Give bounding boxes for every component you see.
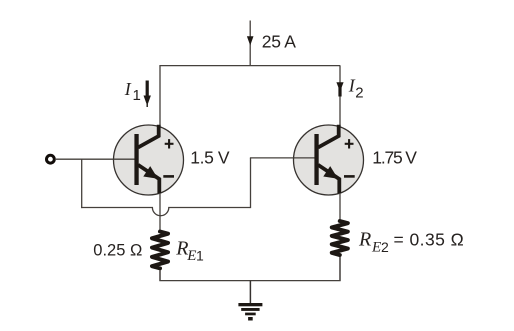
wire: Q1 emitter to RE1 [159, 193, 161, 230]
current arrow I2 [336, 82, 343, 96]
wire: ground stub [249, 281, 251, 304]
polarity mark - of Q2 [344, 175, 355, 178]
svg-text:1: 1 [133, 87, 141, 104]
svg-text:= 0.35 Ω: = 0.35 Ω [394, 230, 465, 250]
label 1.5 V [190, 147, 230, 167]
current arrow 25 A [247, 36, 254, 45]
transistor Q1 [114, 125, 184, 195]
polarity mark - of Q1 [163, 175, 174, 178]
svg-text:1: 1 [196, 248, 204, 264]
wire: top rail [159, 65, 340, 67]
wire: Q2 collector lead [339, 66, 341, 130]
svg-text:2: 2 [381, 239, 389, 255]
label 25 A [262, 32, 296, 52]
wire: base bus with hop over emitter [81, 208, 250, 216]
label 1.75 V [372, 147, 417, 167]
ground [238, 303, 262, 321]
wire: Q2 emitter to RE2 [339, 193, 341, 220]
wire: RE1 to bottom rail [159, 270, 161, 281]
wire: RE2 to bottom rail [339, 257, 341, 281]
wire: junction drop at input node [81, 159, 83, 208]
current arrow I1 [144, 81, 151, 108]
svg-text:1.75 V: 1.75 V [372, 147, 417, 167]
label 0.25 Ω [93, 242, 142, 260]
label RE2 = 0.35 Ω [358, 229, 464, 256]
wire: input to Q1 base [56, 158, 137, 160]
transistor Q2 [294, 125, 364, 195]
svg-text:0.25 Ω: 0.25 Ω [93, 242, 142, 260]
polarity mark + of Q1 [165, 139, 174, 148]
resistor RE1 [152, 232, 168, 269]
svg-text:I: I [124, 79, 132, 99]
svg-text:E: E [186, 248, 196, 264]
wire: supply feed vertical [249, 21, 251, 66]
polarity mark + of Q2 [345, 139, 354, 148]
svg-text:25 A: 25 A [262, 32, 296, 52]
wire: bottom rail [160, 257, 340, 281]
svg-text:2: 2 [355, 85, 363, 102]
resistor RE2 [332, 221, 348, 255]
terminal: input node [47, 155, 55, 163]
label I2 [348, 76, 364, 102]
label I1 [124, 79, 141, 104]
wire: Q1 collector lead [159, 66, 161, 130]
svg-text:1.5 V: 1.5 V [190, 147, 230, 167]
wire: Q2 base lead [250, 157, 317, 159]
svg-text:E: E [371, 240, 381, 256]
svg-text:R: R [358, 229, 371, 251]
label RE1 [175, 238, 204, 265]
wire: riser to Q2 base [250, 158, 252, 208]
